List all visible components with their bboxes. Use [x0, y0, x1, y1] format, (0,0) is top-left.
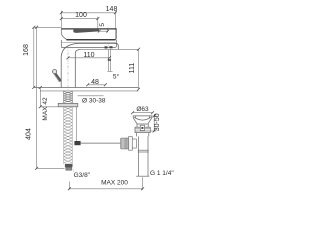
svg-text:110: 110: [83, 52, 94, 59]
drain body: [136, 133, 148, 137]
overflow port detail: [140, 125, 144, 130]
spout outlet dark: [108, 59, 111, 61]
svg-text:G3/8": G3/8": [74, 172, 91, 179]
linkage plate: [129, 137, 133, 151]
linkage connector: [132, 139, 136, 148]
lower view arm underside / 111 leader: [81, 48, 139, 50]
top view waist thick line: [67, 39, 116, 41]
hose end nut: [65, 164, 73, 167]
dim 111 line: [138, 49, 140, 89]
svg-text:Ø 30-38: Ø 30-38: [82, 98, 106, 105]
Ø30-38 leader: [78, 95, 104, 97]
handle lever (lower view): [53, 70, 61, 82]
svg-text:111: 111: [129, 63, 136, 74]
svg-text:30-50: 30-50: [154, 113, 161, 131]
dim MAX200 ticks: [68, 187, 144, 190]
svg-text:168: 168: [23, 44, 30, 56]
dim 148 line: [61, 11, 115, 40]
top view aerator centre dash: [108, 42, 110, 47]
dim Ø63 ticks: [131, 111, 154, 114]
G3/8 leader: [72, 169, 74, 172]
svg-text:404: 404: [25, 128, 32, 140]
top extension line: [34, 26, 62, 28]
dim 30-50: [151, 116, 157, 131]
drain neck: [137, 124, 148, 127]
top view inner line: [62, 42, 117, 44]
svg-text:100: 100: [75, 12, 87, 19]
linkage boss hatched: [121, 138, 129, 149]
top view body upper part: [61, 28, 116, 30]
dim 48 line: [88, 84, 106, 86]
dim 100 line: [61, 17, 98, 32]
tailpipe: [136, 136, 149, 176]
deck top line: [34, 87, 139, 89]
dim MAX42 ticks: [39, 86, 42, 108]
lever bar (top view): [73, 29, 99, 33]
pop-up rod block: [74, 141, 80, 145]
pop-up rod horizontal: [81, 142, 121, 144]
drain flange: [133, 116, 152, 124]
dim 30-50 ticks: [153, 114, 156, 132]
dim 148 ticks: [60, 11, 117, 14]
svg-text:MAX 42: MAX 42: [42, 97, 49, 121]
mounting flange nut: [58, 103, 78, 106]
lower view column: [61, 43, 118, 87]
drain locknut: [135, 127, 150, 132]
shank with thread hatch: [64, 91, 73, 103]
deck bottom line: [40, 90, 138, 92]
dim 100 ticks: [60, 17, 100, 20]
dim MAX42 line: [40, 88, 58, 107]
column centreline dashed: [67, 46, 69, 93]
dim 48 ticks: [86, 83, 107, 86]
svg-text:48: 48: [91, 79, 99, 86]
svg-text:148: 148: [106, 6, 118, 13]
dim MAX200: [69, 177, 142, 190]
svg-text:5: 5: [99, 23, 106, 27]
dim 5 (lever tip): [99, 28, 107, 32]
pop-up rod vertical: [75, 107, 77, 141]
dim 110 ticks: [67, 56, 112, 59]
spout drop tube: [107, 49, 112, 71]
svg-text:MAX 200: MAX 200: [101, 179, 128, 186]
dim Ø63 line: [133, 112, 153, 114]
top view feet marks: [105, 46, 108, 48]
dim 110 line: [68, 57, 110, 59]
hoses braided: [64, 107, 72, 164]
dim 404 line: [37, 27, 65, 168]
dim 111 ticks: [137, 48, 140, 91]
svg-text:G 1 1/4": G 1 1/4": [150, 170, 174, 177]
top view lower block: [61, 40, 116, 47]
svg-text:5°: 5°: [113, 72, 120, 80]
dim 404 ticks: [35, 26, 38, 170]
svg-text:Ø63: Ø63: [136, 106, 149, 113]
dim 168 line: [33, 27, 35, 87]
dim 168 ticks: [32, 26, 35, 89]
dim 5 ticks: [98, 30, 109, 33]
